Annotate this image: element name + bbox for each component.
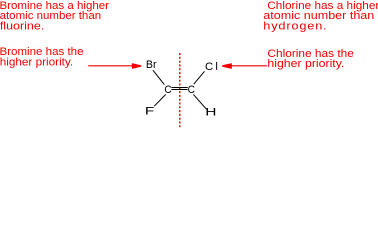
bond F-C	[154, 94, 166, 106]
note: bromine atomic number (left top text block)	[0, 0, 110, 32]
note: chlorine atomic number (right top text block)	[263, 0, 378, 32]
note: bromine priority (left middle text block)	[0, 46, 84, 68]
svg-text:H: H	[205, 106, 216, 118]
left red arrow pointing at Br	[88, 63, 141, 69]
bond Cl-C	[194, 71, 205, 84]
svg-text:Cl: Cl	[205, 61, 218, 73]
svg-text:higher priority.: higher priority.	[267, 58, 344, 70]
note: chlorine priority (right middle text block)	[267, 48, 354, 70]
svg-text:F: F	[145, 106, 155, 118]
bond Br-C	[153, 70, 164, 84]
svg-text:higher priority.: higher priority.	[0, 57, 73, 69]
bond C-H	[193, 94, 206, 109]
red dotted mirror line	[179, 53, 181, 129]
svg-text:fluorine.: fluorine.	[0, 20, 44, 32]
double bond C=C	[171, 88, 187, 90]
svg-text:Br: Br	[146, 59, 157, 71]
svg-text:C: C	[188, 84, 195, 96]
svg-text:C: C	[164, 84, 171, 96]
svg-text:hydrogen.: hydrogen.	[263, 20, 327, 32]
right red arrow pointing at Cl	[222, 63, 267, 69]
